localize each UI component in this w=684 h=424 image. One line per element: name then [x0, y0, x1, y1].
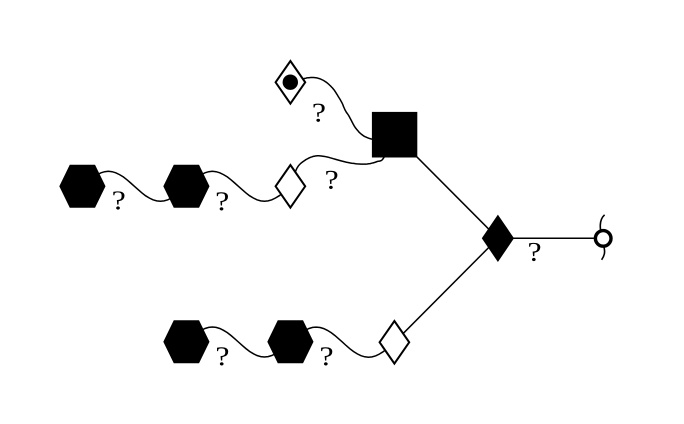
- reducing end circle: [595, 231, 611, 247]
- question mark label link hexM2-diaM: [217, 192, 228, 210]
- open diamond residue with dot: [276, 61, 306, 104]
- wire wavy link diaDot-square: [290, 78, 394, 140]
- wire straight link diaF-diaB: [394, 238, 498, 342]
- open diamond residue diaB: [380, 321, 410, 364]
- hexagon residue hexM2: [164, 166, 208, 207]
- question mark label link hexM1-hexM2: [113, 191, 124, 209]
- question mark label link hexB2-diaB: [321, 347, 332, 365]
- wire straight link square-diaF: [394, 134, 498, 238]
- wire straight link diaF-reducing end: [498, 237, 603, 239]
- wire wavy link diaM-square: [290, 134, 394, 186]
- question mark label link diaF-reducing end: [529, 243, 540, 261]
- question mark label link diaM-square: [326, 171, 337, 189]
- dot inside diamond: [283, 75, 298, 90]
- wire wavy link hexM1-hexM2: [82, 171, 186, 201]
- filled square residue: [373, 113, 416, 157]
- question mark label link hexB1-hexB2: [217, 347, 228, 365]
- hexagon residue hexB2: [268, 321, 312, 362]
- hexagon residue hexM1: [60, 166, 104, 207]
- reducing end squiggle: [600, 215, 604, 260]
- wire wavy link hexM2-diaM: [186, 171, 290, 201]
- wire wavy link hexB2-diaB: [290, 327, 394, 357]
- filled diamond residue diaF: [483, 216, 513, 260]
- hexagon residue hexB1: [164, 321, 208, 362]
- open diamond residue diaM: [276, 165, 306, 208]
- wire wavy link hexB1-hexB2: [186, 327, 290, 357]
- question mark label link diaDot-square: [313, 104, 324, 122]
